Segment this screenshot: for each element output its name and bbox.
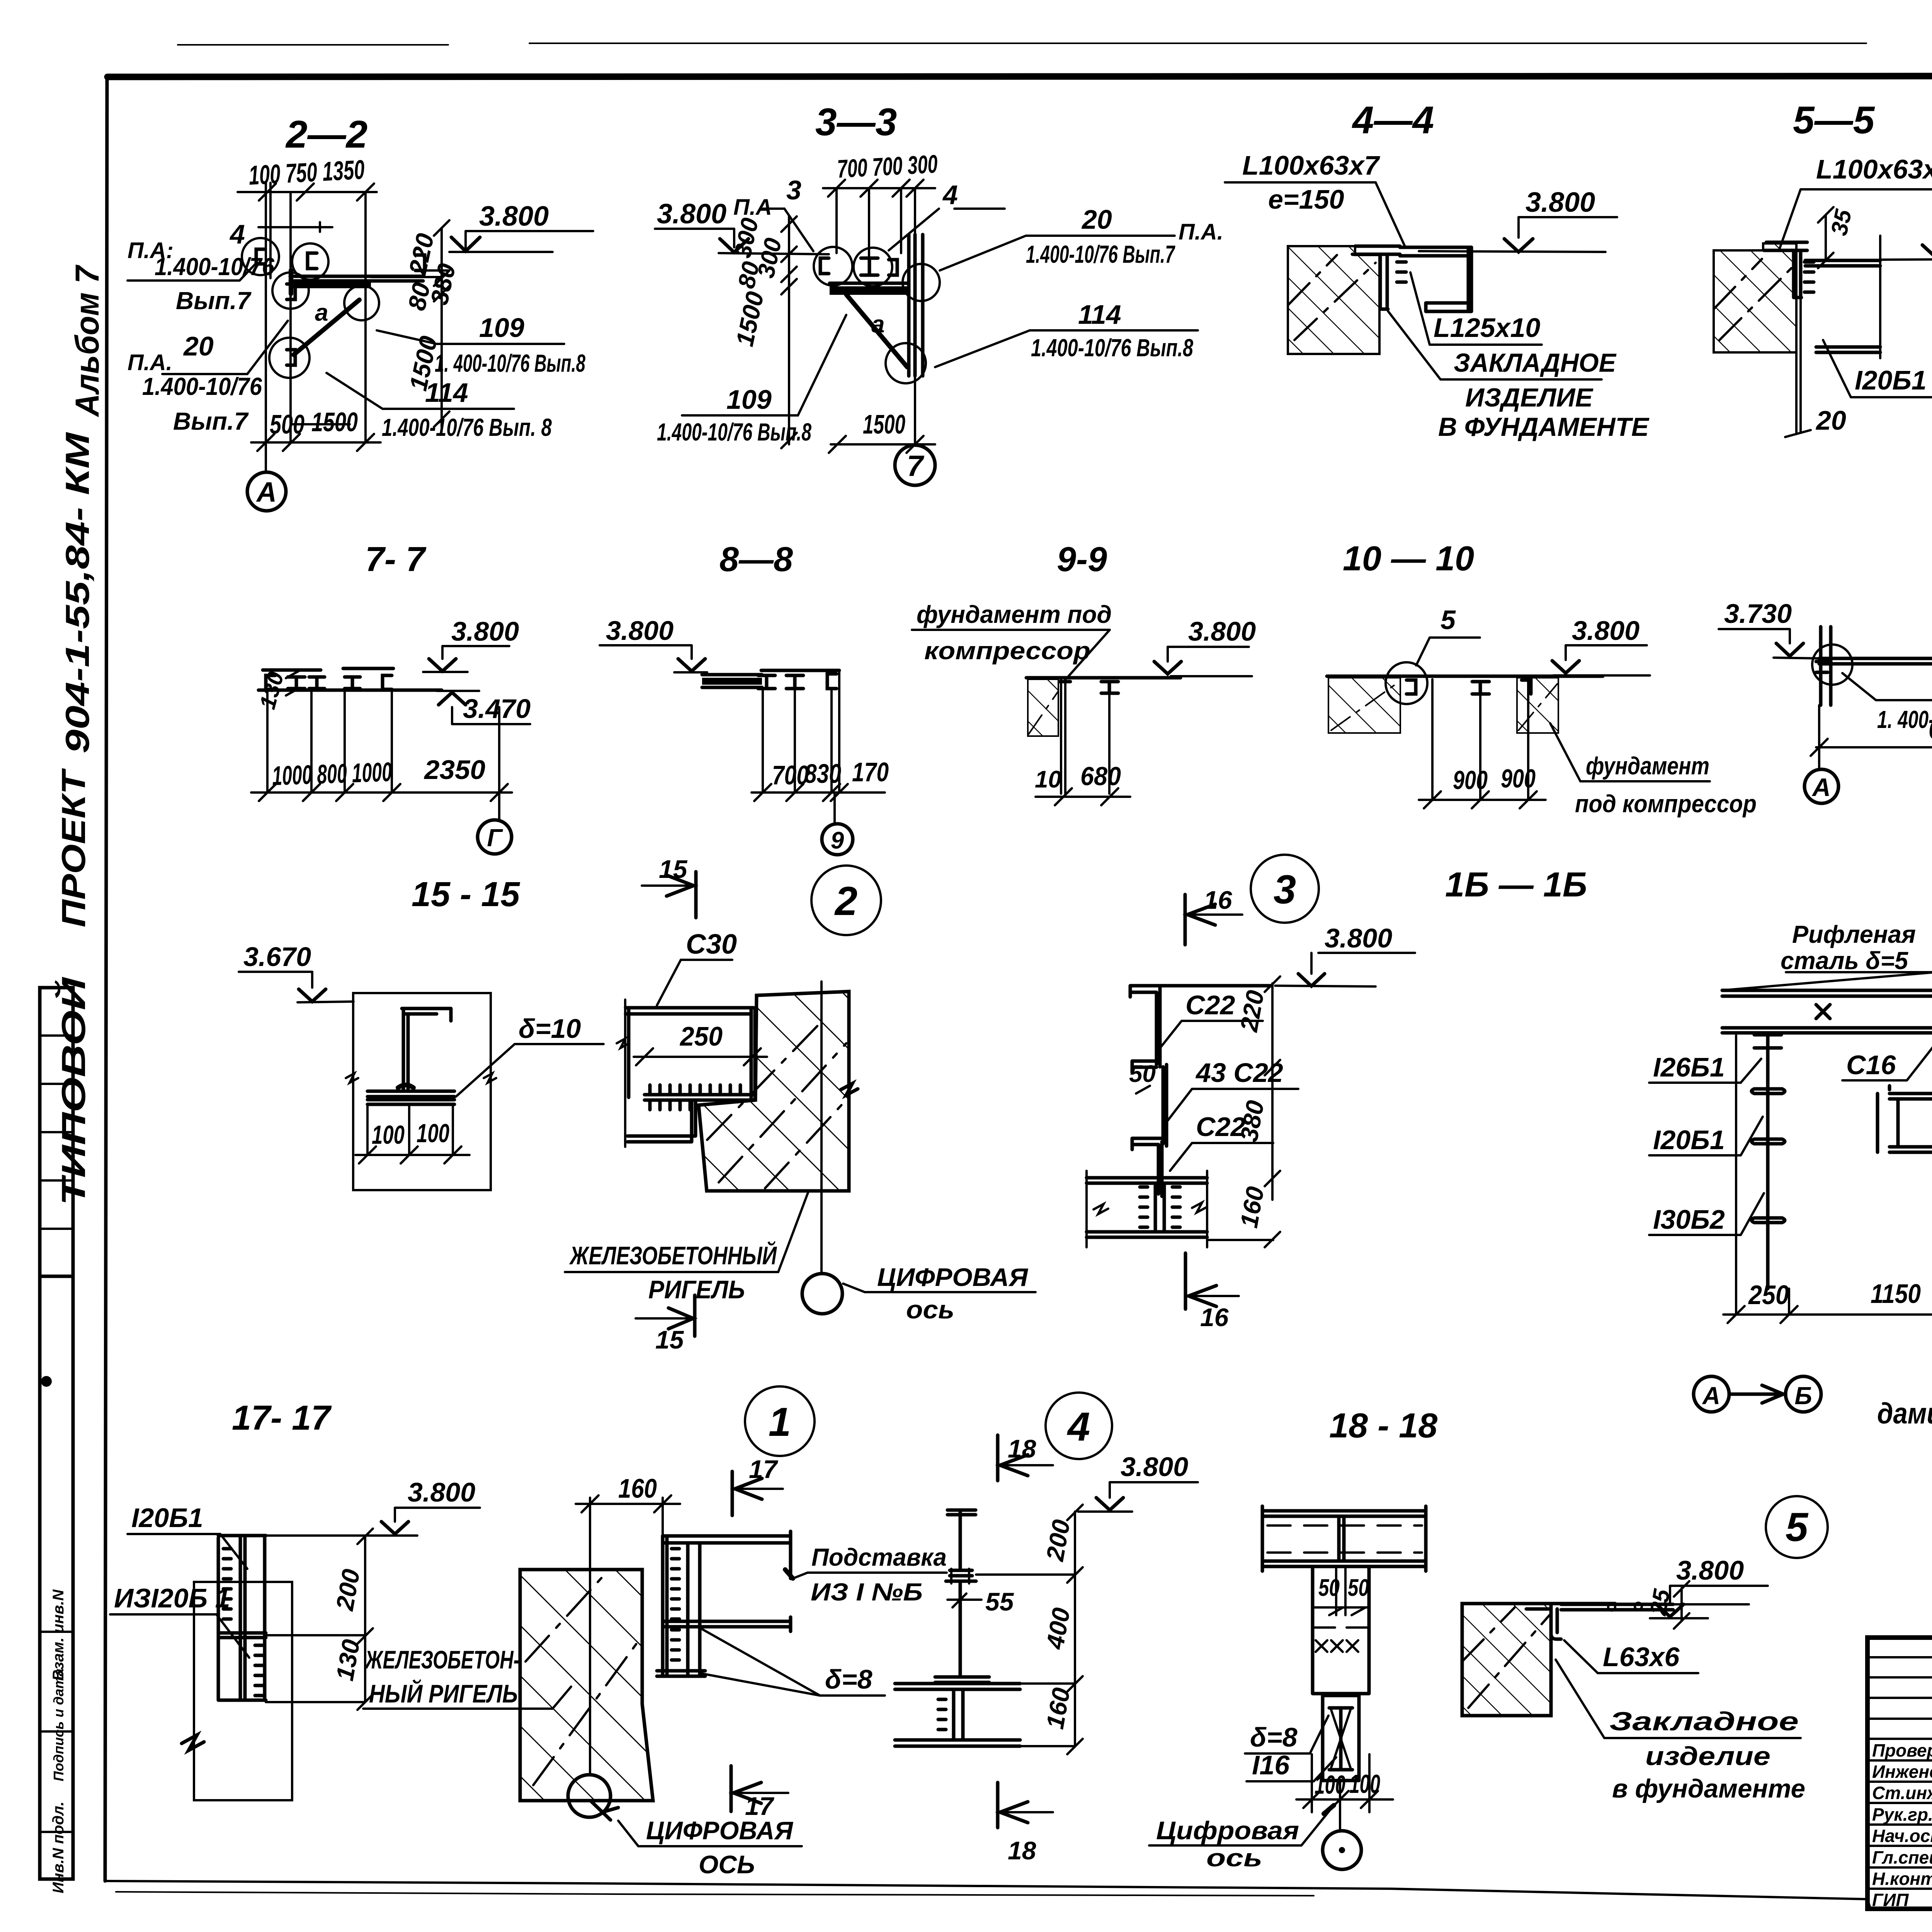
svg-text:δ=10: δ=10: [519, 1014, 581, 1044]
svg-text:А: А: [256, 477, 277, 508]
top channel left corner: [1130, 986, 1160, 1067]
svg-text:Подставка: Подставка: [811, 1543, 947, 1571]
axis circles А Б: [1694, 1376, 1729, 1412]
svg-text:П.А.: П.А.: [128, 350, 172, 375]
svg-text:Рифленая: Рифленая: [1792, 920, 1916, 948]
svg-text:ЖЕЛЕЗОБЕТОН-: ЖЕЛЕЗОБЕТОН-: [364, 1645, 520, 1674]
L-angle: [1352, 246, 1400, 309]
svg-text:1. 400-10/76 Вып. 7: 1. 400-10/76 Вып. 7: [1877, 706, 1932, 733]
node circle b: [292, 243, 328, 280]
svg-text:900: 900: [1501, 764, 1536, 793]
svg-text:ГИП: ГИП: [1872, 1890, 1909, 1910]
svg-text:Альбом 7: Альбом 7: [69, 264, 106, 417]
node circle small: [1386, 662, 1427, 704]
vertical axis through: [820, 981, 823, 1273]
svg-text:ось: ось: [1206, 1844, 1262, 1872]
middle channel part: [1132, 1061, 1167, 1146]
left hatched block: [1328, 678, 1400, 733]
svg-text:П.А.: П.А.: [1179, 219, 1223, 245]
dim line: [1811, 739, 1932, 756]
svg-text:Ст.инж.: Ст.инж.: [1872, 1783, 1932, 1803]
svg-text:114: 114: [1078, 299, 1121, 330]
weld teeth: [672, 1549, 679, 1619]
svg-text:3.800: 3.800: [1325, 923, 1392, 953]
svg-text:А: А: [1811, 773, 1831, 801]
svg-text:I30Б2: I30Б2: [1653, 1204, 1725, 1235]
svg-text:6000: 6000: [1929, 714, 1932, 745]
I-beam columns right: [663, 1536, 700, 1676]
frame top border: [107, 76, 1932, 77]
svg-text:3: 3: [786, 175, 801, 205]
svg-text:ЦИФРОВАЯ: ЦИФРОВАЯ: [877, 1263, 1029, 1291]
svg-text:1. 400-10/76 Вып.8: 1. 400-10/76 Вып.8: [435, 349, 585, 377]
svg-text:e=150: e=150: [1268, 184, 1344, 214]
svg-text:3.800: 3.800: [479, 201, 549, 232]
anchor lines: [1061, 679, 1065, 794]
outline rect: [194, 1582, 292, 1800]
svg-text:ЖЕЛЕЗОБЕТОННЫЙ: ЖЕЛЕЗОБЕТОННЫЙ: [569, 1241, 777, 1270]
node circle c: [272, 272, 309, 309]
svg-text:3.800: 3.800: [657, 199, 726, 230]
top beam lines: [263, 668, 393, 670]
bottom beam: [1087, 1178, 1207, 1237]
svg-text:4—4: 4—4: [1352, 99, 1434, 142]
column glyphs: [1406, 680, 1531, 694]
break marks: [346, 1073, 496, 1083]
I glyph + line: [1101, 682, 1118, 693]
svg-text:50: 50: [1318, 1575, 1340, 1601]
webs + weld: [1155, 1183, 1164, 1232]
svg-text:5: 5: [1786, 1505, 1809, 1550]
svg-text:Н.контр.: Н.контр.: [1872, 1869, 1932, 1889]
svg-text:4: 4: [229, 219, 245, 249]
svg-text:ЦИФРОВАЯ: ЦИФРОВАЯ: [646, 1816, 794, 1845]
axis circle А: [247, 472, 286, 511]
svg-text:900: 900: [1453, 765, 1488, 795]
C30 channel: [626, 1008, 755, 1100]
lower C16 beam: [1889, 1094, 1932, 1152]
цифровая ось: [568, 1775, 611, 1817]
node circle a: [242, 238, 279, 275]
svg-text:1000 800 1000: 1000 800 1000: [272, 757, 393, 791]
top slab beams: [1262, 1506, 1426, 1571]
svg-text:сталь δ=5: сталь δ=5: [1781, 947, 1908, 975]
svg-text:L100x63x7: L100x63x7: [1242, 150, 1380, 180]
beam double line: [1819, 658, 1932, 664]
svg-text:а: а: [315, 299, 328, 326]
svg-text:L125x10: L125x10: [1434, 313, 1540, 343]
svg-text:изделие: изделие: [1645, 1742, 1770, 1771]
svg-text:в фундаменте: в фундаменте: [1612, 1774, 1805, 1803]
svg-text:160: 160: [618, 1473, 657, 1503]
svg-text:1500: 1500: [311, 407, 358, 437]
column: [1313, 1566, 1369, 1694]
node circle e: [269, 338, 310, 378]
svg-text:55: 55: [985, 1587, 1014, 1616]
svg-text:L63x6: L63x6: [1603, 1642, 1680, 1672]
svg-text:ИЗ I №Б: ИЗ I №Б: [811, 1578, 923, 1606]
svg-text:3.800: 3.800: [1676, 1555, 1744, 1585]
section mark 17 bottom: [730, 1766, 733, 1811]
signature table rows: [1867, 1657, 1932, 1889]
node circle d: [344, 286, 379, 320]
svg-text:3.670: 3.670: [243, 942, 311, 972]
svg-text:I20Б1: I20Б1: [131, 1503, 203, 1533]
node circle 2: [811, 866, 881, 935]
hatched foundation: [1028, 679, 1058, 736]
concrete block hatched: [1714, 243, 1796, 352]
svg-text:20: 20: [1815, 405, 1846, 435]
svg-text:7- 7: 7- 7: [365, 540, 427, 579]
svg-text:I20Б1: I20Б1: [1653, 1125, 1725, 1155]
svg-text:Инженер: Инженер: [1872, 1762, 1932, 1782]
svg-text:1Б — 1Б: 1Б — 1Б: [1445, 866, 1587, 904]
top chord: [761, 669, 839, 672]
column outline rect: [353, 993, 491, 1190]
svg-text:830: 830: [804, 759, 841, 789]
svg-text:109: 109: [726, 384, 772, 415]
dimension line: [238, 184, 377, 201]
svg-text:18: 18: [1008, 1836, 1036, 1865]
top bracket line: [259, 222, 332, 232]
svg-text:С22: С22: [1185, 990, 1235, 1020]
svg-text:I16: I16: [1252, 1750, 1290, 1780]
node circle 1: [745, 1386, 815, 1456]
node circle 5: [1766, 1496, 1828, 1558]
diagonal brace: [846, 294, 907, 367]
axis circle Г: [478, 820, 512, 854]
svg-text:под компрессор: под компрессор: [1575, 790, 1757, 818]
svg-text:50: 50: [1129, 1061, 1156, 1087]
svg-text:680: 680: [1080, 762, 1121, 791]
section mark 15 bottom: [693, 1295, 697, 1336]
extension lines: [763, 670, 839, 793]
section mark 16 bottom: [1184, 1253, 1187, 1309]
svg-text:904-1-55,84- КМ: 904-1-55,84- КМ: [59, 432, 96, 753]
svg-text:1.400-10/76 Вып.8: 1.400-10/76 Вып.8: [657, 418, 811, 446]
svg-text:50: 50: [1348, 1575, 1369, 1601]
svg-text:25: 25: [1645, 1587, 1675, 1617]
svg-text:2350: 2350: [423, 755, 485, 785]
break marks: [1094, 1202, 1207, 1214]
svg-text:700 700 300: 700 700 300: [837, 149, 939, 183]
svg-text:Цифровая: Цифровая: [1156, 1816, 1299, 1845]
svg-text:1.400-10/76 Вып.7: 1.400-10/76 Вып.7: [1026, 240, 1175, 268]
svg-text:17: 17: [745, 1792, 775, 1820]
svg-text:16: 16: [1200, 1303, 1229, 1332]
svg-text:I26Б1: I26Б1: [1653, 1052, 1725, 1082]
svg-text:L100x63x7: L100x63x7: [1816, 154, 1932, 184]
svg-text:а: а: [871, 311, 884, 338]
svg-text:дами типа Э42 по ГОСТ 9467-75.: дами типа Э42 по ГОСТ 9467-75.: [1877, 1397, 1932, 1430]
beam bar: [702, 675, 762, 687]
svg-text:Рук.гр.: Рук.гр.: [1872, 1804, 1932, 1825]
left margin vertical project text: [55, 264, 106, 1206]
frame bottom border: [105, 1881, 1932, 1909]
svg-text:ПРОЕКТ: ПРОЕКТ: [55, 768, 92, 927]
extension lines: [1432, 679, 1528, 800]
svg-text:1.400-10/76: 1.400-10/76: [142, 372, 262, 400]
hatched ригель: [699, 992, 849, 1191]
svg-text:1500: 1500: [863, 409, 905, 439]
axis circle 9: [833, 793, 836, 824]
svg-text:114: 114: [425, 378, 468, 408]
svg-text:8—8: 8—8: [719, 540, 793, 579]
L-angle: [1764, 242, 1807, 298]
weld teeth: [650, 1085, 740, 1094]
svg-text:I20Б1: I20Б1: [1855, 365, 1927, 395]
lower angle: [628, 1100, 696, 1142]
svg-text:3.730: 3.730: [1724, 599, 1792, 629]
column I-beam: [909, 235, 923, 376]
svg-text:250: 250: [679, 1021, 723, 1051]
svg-text:Подпись и дата: Подпись и дата: [51, 1668, 66, 1781]
svg-text:3—3: 3—3: [815, 100, 897, 144]
svg-text:ОСЬ: ОСЬ: [699, 1850, 755, 1879]
beam bar: [290, 276, 423, 281]
top line: [1026, 676, 1180, 680]
svg-text:15: 15: [655, 1325, 684, 1354]
node circle 3: [1251, 855, 1319, 923]
цифровая ось circle 18-18: [1323, 1831, 1361, 1869]
bolts on joint: [951, 1569, 969, 1583]
channel glyphs: [256, 249, 425, 365]
svg-text:1.400-10/76 Вып. 8: 1.400-10/76 Вып. 8: [382, 413, 552, 441]
extension lines: [267, 690, 499, 819]
svg-text:5: 5: [1440, 605, 1456, 635]
concrete block hatched: [1288, 246, 1379, 354]
frame left border: [105, 77, 107, 1881]
top thin trim line: [178, 42, 1932, 45]
svg-text:3.800: 3.800: [1188, 616, 1256, 646]
svg-text:17- 17: 17- 17: [232, 1399, 332, 1437]
svg-text:Гл.спецто: Гл.спецто: [1872, 1847, 1932, 1867]
svg-text:РИГЕЛЬ: РИГЕЛЬ: [648, 1275, 745, 1304]
svg-text:А: А: [1702, 1382, 1720, 1410]
svg-text:2—2: 2—2: [285, 113, 367, 156]
svg-text:С16: С16: [1846, 1050, 1896, 1080]
top chord line: [1160, 984, 1271, 988]
svg-text:3.800: 3.800: [451, 616, 519, 646]
svg-text:80: 80: [733, 259, 765, 291]
svg-text:Взам. инв.N: Взам. инв.N: [50, 1589, 67, 1681]
channel glyphs: [820, 258, 897, 275]
svg-text:17: 17: [749, 1455, 779, 1483]
svg-text:2: 2: [834, 879, 857, 924]
svg-text:43 С22: 43 С22: [1195, 1058, 1283, 1088]
svg-text:3.800: 3.800: [1526, 187, 1595, 218]
I glyphs + channel: [758, 674, 837, 689]
цифровая ось circle: [802, 1274, 842, 1314]
lower channel: [1132, 1138, 1162, 1196]
top plate line extended: [1615, 1603, 1749, 1605]
svg-text:3.800: 3.800: [408, 1477, 475, 1507]
svg-text:170: 170: [852, 757, 889, 787]
weld teeth: [223, 1549, 231, 1619]
svg-text:Нач.осн: Нач.осн: [1872, 1826, 1932, 1846]
svg-text:ИЗДЕЛИЕ: ИЗДЕЛИЕ: [1465, 383, 1594, 412]
weld xxx: [1316, 1640, 1358, 1652]
svg-text:15 - 15: 15 - 15: [412, 875, 520, 914]
svg-text:фундамент под: фундамент под: [917, 600, 1112, 628]
hatched block: [1462, 1604, 1551, 1716]
top line: [1327, 675, 1603, 678]
extension/axis lines: [266, 183, 366, 472]
svg-text:109: 109: [479, 313, 524, 343]
floor line: [259, 689, 442, 692]
svg-text:НЫЙ РИГЕЛЬ: НЫЙ РИГЕЛЬ: [369, 1679, 518, 1708]
break mark: [182, 1735, 204, 1750]
axis circle А: [1804, 769, 1838, 803]
svg-text:16: 16: [1204, 886, 1233, 914]
svg-text:δ=8: δ=8: [825, 1664, 872, 1694]
svg-text:20: 20: [183, 331, 214, 361]
hatched concrete: [520, 1570, 653, 1801]
svg-text:100: 100: [372, 1120, 405, 1150]
beam end glyphs: [1878, 1086, 1932, 1156]
section mark 18 bottom: [996, 1782, 1000, 1828]
left margin small boxes: [40, 988, 73, 1893]
title block: [1867, 1638, 1932, 1910]
twin I-beam columns: [218, 1536, 266, 1700]
svg-text:20: 20: [1081, 204, 1112, 235]
left I-column glyph: [1754, 1035, 1781, 1048]
svg-text:1150: 1150: [1871, 1279, 1921, 1309]
svg-text:ось: ось: [906, 1295, 954, 1324]
I beam side: [1805, 260, 1880, 352]
svg-text:Вып.7: Вып.7: [176, 287, 252, 315]
svg-text:3.800: 3.800: [606, 616, 673, 646]
svg-text:ИЗI20Б 1: ИЗI20Б 1: [114, 1583, 230, 1613]
weld cross marks: [1816, 1005, 1932, 1068]
svg-text:ЗАКЛАДНОЕ: ЗАКЛАДНОЕ: [1454, 348, 1617, 378]
svg-text:250: 250: [1748, 1280, 1789, 1310]
weld teeth: [1397, 262, 1406, 282]
weld teeth: [1804, 262, 1814, 292]
general notes: [1877, 1326, 1932, 1466]
svg-text:7: 7: [907, 450, 925, 483]
inverted T beam: [402, 1009, 451, 1091]
svg-text:10: 10: [1035, 766, 1061, 793]
diagonal brace d: [294, 300, 359, 355]
left column: [1816, 627, 1831, 705]
svg-text:5—5: 5—5: [1793, 99, 1875, 142]
weld blobs: [398, 1085, 413, 1088]
svg-text:3: 3: [1274, 867, 1296, 912]
lower I in box: [1323, 1696, 1359, 1781]
L63x6 angle: [1526, 1604, 1615, 1639]
svg-text:9: 9: [831, 827, 844, 854]
svg-text:9-9: 9-9: [1057, 540, 1107, 579]
svg-text:Вып.7: Вып.7: [173, 407, 249, 435]
axis circle 7: [914, 444, 916, 445]
svg-text:4: 4: [1067, 1404, 1090, 1449]
platform floor: [1722, 990, 1932, 1033]
svg-text:3.800: 3.800: [1572, 616, 1639, 646]
svg-text:18 - 18: 18 - 18: [1329, 1406, 1437, 1445]
svg-text:С30: С30: [686, 929, 737, 960]
svg-text:В ФУНДАМЕНТЕ: В ФУНДАМЕНТЕ: [1438, 412, 1650, 442]
I-section column: [947, 1510, 976, 1570]
svg-text:Б: Б: [1794, 1382, 1812, 1410]
left axis line: [624, 1000, 626, 1147]
beam bar: [830, 282, 909, 285]
right hatched block: [1517, 678, 1558, 733]
svg-text:компрессор: компрессор: [924, 637, 1090, 665]
svg-text:δ=8: δ=8: [1250, 1722, 1298, 1752]
svg-text:3.470: 3.470: [463, 694, 531, 724]
svg-text:10 — 10: 10 — 10: [1343, 539, 1474, 578]
anchor rod: [1785, 296, 1811, 437]
svg-text:100: 100: [417, 1119, 449, 1148]
svg-text:Закладное: Закладное: [1609, 1707, 1799, 1736]
bolts: [1608, 1604, 1615, 1611]
svg-text:Г: Г: [487, 824, 503, 852]
channel beam: [1400, 247, 1471, 311]
node circles: [814, 247, 852, 286]
section glyphs: channel + I-beams: [266, 675, 392, 689]
svg-text:1.400-10/76 Вып.8: 1.400-10/76 Вып.8: [1031, 334, 1193, 362]
beam below: [895, 1684, 1020, 1746]
svg-text:Проверил: Проверил: [1872, 1740, 1932, 1760]
svg-text:Инв.N подл.: Инв.N подл.: [50, 1801, 67, 1893]
svg-text:1: 1: [769, 1400, 791, 1445]
svg-text:4: 4: [942, 180, 958, 210]
svg-text:3.800: 3.800: [1121, 1452, 1188, 1482]
break marks right: [841, 1083, 858, 1095]
svg-text:фундамент: фундамент: [1586, 752, 1709, 780]
